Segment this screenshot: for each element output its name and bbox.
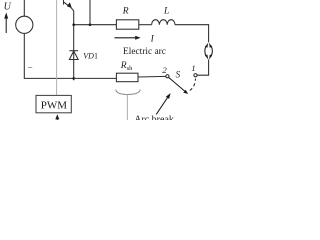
svg-text:−: − — [28, 63, 33, 73]
wire branch vertical — [89, 0, 91, 25]
wire R to L — [139, 24, 152, 26]
measurement line from shunt — [126, 95, 128, 121]
svg-text:I: I — [150, 34, 155, 44]
wire Rsh to node 2 — [138, 75, 166, 78]
switch S blade — [169, 77, 189, 94]
svg-text:S: S — [176, 70, 181, 80]
inductor L — [152, 20, 175, 25]
wire emitter/diode vertical — [73, 11, 75, 81]
wire arc to node 1 — [197, 59, 208, 75]
resistor R — [116, 20, 138, 29]
wire top horizontal — [74, 24, 117, 26]
switch throw dashed arc — [190, 79, 196, 91]
wire source bottom — [24, 33, 116, 78]
electric arc symbol — [205, 43, 213, 60]
svg-text:U: U — [4, 1, 12, 12]
node 1 — [194, 74, 197, 77]
svg-text:Electric arc: Electric arc — [123, 47, 166, 57]
wire source top — [23, 0, 25, 16]
svg-text:PWM: PWM — [41, 100, 68, 112]
voltage arrow — [4, 12, 8, 33]
svg-text:L: L — [163, 7, 169, 17]
transistor VT emitter remnant — [64, 0, 74, 11]
svg-text:VD1: VD1 — [83, 51, 98, 60]
svg-text:1: 1 — [191, 63, 195, 73]
wire L to corner — [175, 25, 209, 43]
leader arrow Arc break — [156, 93, 170, 114]
source G1 — [16, 16, 33, 33]
PWM gate line — [56, 0, 58, 95]
brace under shunt — [116, 90, 140, 95]
svg-text:R: R — [122, 6, 129, 16]
shunt Rsh — [116, 73, 138, 82]
junction dot A — [72, 23, 75, 26]
node 2 — [166, 75, 169, 78]
PWM box U2 — [36, 95, 71, 112]
svg-text:2: 2 — [162, 65, 167, 75]
svg-text:Arc break: Arc break — [134, 115, 174, 120]
junction dot C — [72, 77, 75, 80]
diode VD1 — [69, 51, 78, 60]
svg-text:Rsh: Rsh — [120, 61, 133, 72]
junction dot B — [89, 23, 92, 26]
current arrow — [115, 36, 141, 40]
PWM feedback arrow — [55, 114, 59, 120]
